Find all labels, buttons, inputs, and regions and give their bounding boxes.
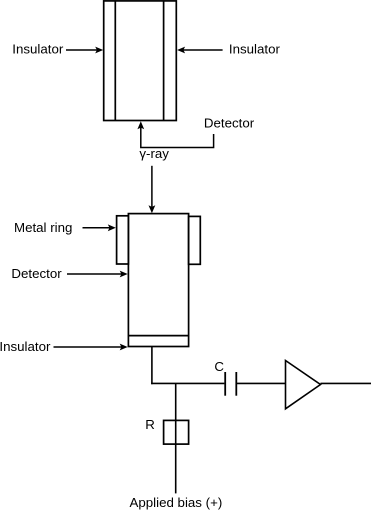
top detector assembly outer body [104, 1, 177, 121]
resistor R box [164, 420, 189, 444]
svg-text:Detector: Detector [11, 266, 62, 281]
capacitor C right plate [235, 372, 237, 396]
top assembly right insulator wall line [163, 1, 165, 121]
top assembly left insulator wall line [114, 1, 116, 121]
arrow metal ring [83, 224, 116, 231]
svg-text:R: R [145, 417, 155, 432]
second detector main body [128, 214, 188, 347]
metal ring right tab [189, 216, 201, 264]
amplifier output wire [321, 382, 371, 384]
svg-text:Metal ring: Metal ring [14, 220, 72, 235]
svg-text:Insulator: Insulator [229, 42, 281, 57]
arrow detector second [67, 271, 128, 278]
capacitor C left plate [224, 372, 226, 396]
wire horizontal to capacitor [151, 382, 224, 384]
svg-text:Insulator: Insulator [0, 339, 51, 354]
svg-text:Applied bias (+): Applied bias (+) [130, 495, 223, 510]
wire capacitor to amplifier [237, 382, 286, 384]
arrow insulator right [177, 47, 223, 54]
insulator strip line in detector body [128, 335, 188, 337]
svg-text:C: C [214, 359, 224, 374]
gamma-ray arrow down [149, 166, 156, 213]
metal ring left tab [117, 216, 129, 264]
svg-text:Detector: Detector [204, 116, 255, 131]
svg-text:Insulator: Insulator [12, 42, 64, 57]
amplifier triangle [286, 361, 321, 409]
arrow insulator second [54, 344, 128, 351]
detector callout bracket with up arrow [137, 121, 213, 147]
arrow insulator left [66, 47, 103, 54]
svg-text:γ-ray: γ-ray [139, 146, 169, 161]
wire from detector bottom down [151, 347, 153, 385]
wire junction down to resistor and bias [175, 383, 177, 493]
